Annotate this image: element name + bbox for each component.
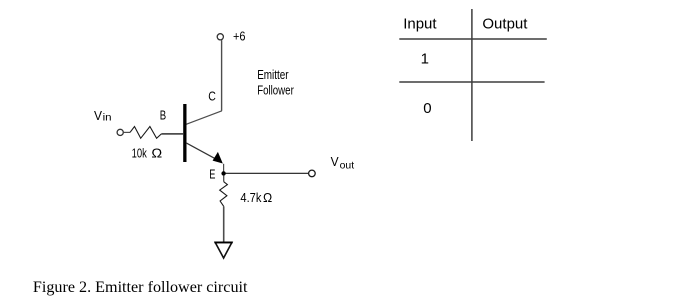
svg-text:E: E xyxy=(209,168,215,182)
wire collector diagonal xyxy=(186,111,222,125)
svg-text:C: C xyxy=(208,88,216,103)
terminal Vout xyxy=(309,170,316,177)
terminal Vin xyxy=(117,129,123,135)
svg-text:out: out xyxy=(340,161,355,172)
svg-text:1: 1 xyxy=(421,51,429,68)
label Emitter Follower xyxy=(257,67,294,97)
wire collector vertical xyxy=(221,40,223,111)
wire node to resistor R2 xyxy=(223,175,225,181)
transistor Q1 emitter line xyxy=(186,143,218,160)
resistor R1 10k zigzag xyxy=(130,127,161,139)
svg-text:V: V xyxy=(94,108,102,123)
svg-text:Figure 2. Emitter follower cir: Figure 2. Emitter follower circuit xyxy=(33,277,248,296)
svg-text:10k: 10k xyxy=(132,145,148,160)
svg-text:Ω: Ω xyxy=(151,145,162,160)
table header rule xyxy=(399,38,547,40)
label Vin xyxy=(94,108,112,123)
svg-text:Output: Output xyxy=(482,16,528,33)
svg-text:0: 0 xyxy=(423,100,431,117)
svg-text:Input: Input xyxy=(403,16,437,33)
wire base xyxy=(161,133,183,135)
terminal +6 supply xyxy=(217,34,223,40)
svg-text:4.7k: 4.7k xyxy=(240,190,261,205)
wire emitter to node xyxy=(223,164,225,174)
transistor Q1 emitter arrowhead xyxy=(213,152,223,164)
svg-text:Follower: Follower xyxy=(257,82,294,97)
table row rule xyxy=(399,81,544,83)
svg-text:in: in xyxy=(103,112,112,123)
svg-text:+6: +6 xyxy=(233,30,246,44)
svg-text:Emitter: Emitter xyxy=(257,67,289,82)
wire node to Vout xyxy=(226,172,309,174)
svg-text:B: B xyxy=(160,109,166,123)
wire Vin to resistor xyxy=(123,131,130,133)
node E junction dot xyxy=(221,171,225,175)
resistor R2 4.7k zigzag xyxy=(220,182,228,207)
wire resistor R2 to ground xyxy=(223,206,225,242)
label Vout xyxy=(331,154,355,171)
transistor Q1 base bar xyxy=(183,104,186,162)
svg-text:Ω: Ω xyxy=(263,190,272,205)
table column divider xyxy=(471,9,473,141)
ground xyxy=(215,242,232,258)
svg-text:V: V xyxy=(331,154,339,169)
